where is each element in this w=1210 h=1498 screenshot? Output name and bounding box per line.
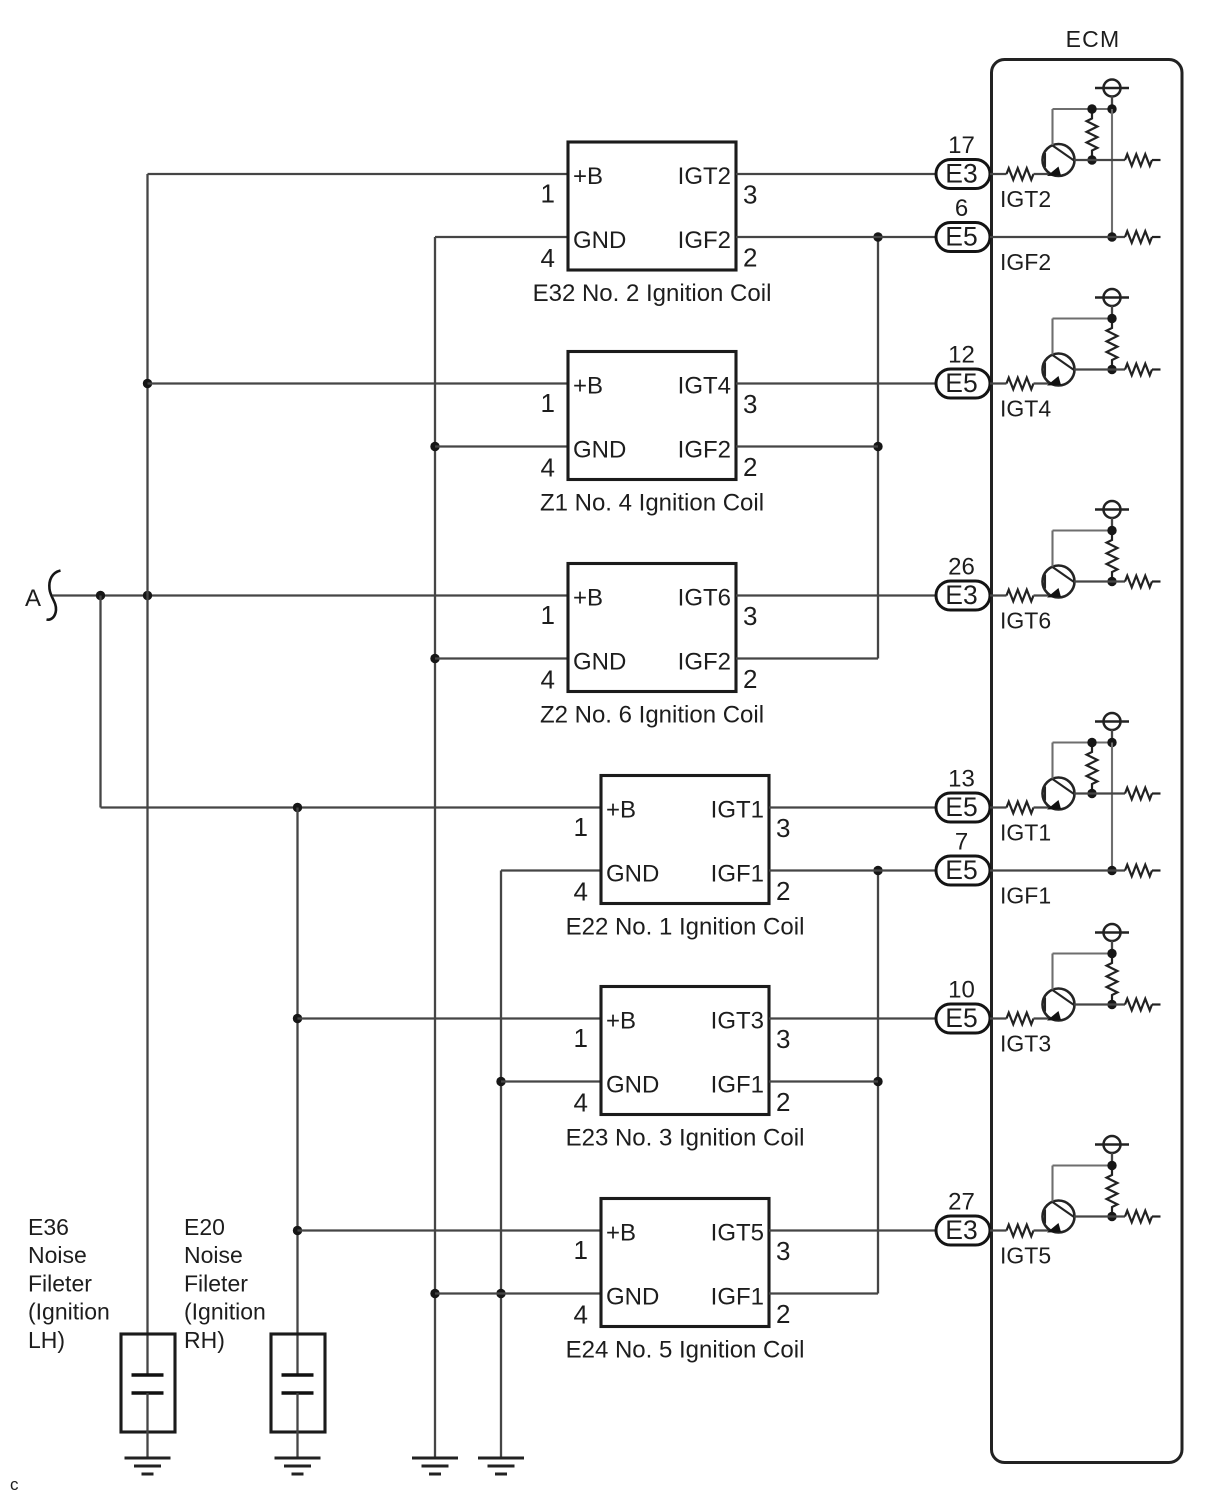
resistor IGT3 collector	[1125, 999, 1152, 1011]
resistor IGF2	[1125, 231, 1152, 243]
transistor IGT6 driver	[1043, 566, 1075, 598]
wire IGT1 collector out	[1074, 792, 1125, 794]
svg-text:E23 No. 3 Ignition Coil: E23 No. 3 Ignition Coil	[566, 1125, 805, 1152]
wire +B riser to E20 noise filter	[296, 808, 298, 1376]
resistor IGT2 collector	[1125, 154, 1152, 166]
junction IGF1 bus / No.3 IGF1	[873, 1077, 882, 1086]
wire IGT6 resistor tail	[1152, 580, 1161, 582]
wire IGF2 No.4 to bus	[736, 445, 878, 447]
junction GND bus / E23 No.3	[496, 1077, 505, 1086]
resistor IGT4 pull-up	[1107, 319, 1118, 370]
junction IGT2 supply branch	[1107, 104, 1116, 113]
svg-text:IGF1: IGF1	[711, 1284, 764, 1311]
resistor IGT5 pull-up	[1107, 1166, 1118, 1217]
resistor IGT4 collector	[1125, 364, 1152, 376]
svg-text:IGT6: IGT6	[1000, 608, 1051, 634]
svg-text:IGT4: IGT4	[1000, 396, 1051, 422]
power symbol IGT3 supply	[1095, 924, 1129, 954]
wire IGF2 No.2 to connector E5-6	[736, 236, 936, 238]
junction IGF1 bus / No.1 IGF1	[873, 866, 882, 875]
svg-text:IGF2: IGF2	[678, 649, 731, 676]
svg-text:IGT4: IGT4	[678, 373, 731, 400]
resistor IGT2 pull-up	[1087, 109, 1098, 160]
ECM box outline	[992, 60, 1183, 1463]
resistor IGT2 base	[1007, 168, 1034, 180]
svg-text:2: 2	[743, 243, 757, 273]
wire +B E23 No.3	[298, 1017, 602, 1019]
svg-text:1: 1	[541, 179, 555, 209]
svg-text:IGF1: IGF1	[1000, 883, 1051, 909]
wire IGF2 into ECM	[990, 236, 1125, 238]
svg-text:E24 No. 5 Ignition Coil: E24 No. 5 Ignition Coil	[566, 1337, 805, 1364]
connector E5 pin 13 (IGT1)	[936, 792, 990, 822]
wire IGT3 collector up	[1051, 954, 1053, 990]
wire IGT5 to connector E3-27	[769, 1229, 936, 1231]
resistor IGT6 pull-up	[1107, 531, 1118, 582]
svg-text:E32 No. 2 Ignition Coil: E32 No. 2 Ignition Coil	[533, 280, 772, 307]
wire IGF1 bus	[877, 871, 879, 1294]
wire IGT4 collector out	[1074, 368, 1125, 370]
junction +B riser / E23 No.3 +B	[293, 1014, 302, 1023]
connector E3 pin 26 (IGT6)	[936, 580, 990, 610]
junction IGT1 resistor top	[1087, 738, 1096, 747]
connector E5 pin 6 (IGF2)	[936, 222, 990, 252]
power symbol IGT2 supply	[1095, 80, 1129, 110]
transistor IGT2 driver	[1043, 144, 1075, 176]
svg-text:E3: E3	[945, 159, 977, 189]
svg-text:IGF2: IGF2	[1000, 249, 1051, 275]
svg-text:13: 13	[948, 766, 975, 793]
svg-text:E5: E5	[945, 855, 977, 885]
ground coil GND bus 2/4/6	[412, 1458, 458, 1474]
ground E36	[125, 1458, 171, 1474]
svg-text:E5: E5	[945, 368, 977, 398]
svg-text:(Ignition: (Ignition	[184, 1299, 266, 1325]
wire IGT1 collector up	[1051, 743, 1053, 779]
svg-text:(Ignition: (Ignition	[28, 1299, 110, 1325]
wire IGT2 resistor tail	[1152, 159, 1161, 161]
wire IGT2 to connector E3-17	[736, 173, 936, 175]
svg-text:7: 7	[955, 829, 968, 856]
resistor IGT3 base	[1007, 1013, 1034, 1025]
svg-text:2: 2	[743, 664, 757, 694]
svg-text:GND: GND	[606, 861, 659, 888]
svg-text:3: 3	[743, 180, 757, 210]
svg-text:E36: E36	[28, 1214, 69, 1240]
svg-text:IGT2: IGT2	[1000, 186, 1051, 212]
power symbol IGT1 supply	[1095, 713, 1129, 743]
svg-text:12: 12	[948, 342, 975, 369]
wire IGT3 top branch	[1053, 952, 1113, 954]
junction IGF2 bus / No.2 IGF2	[873, 232, 882, 241]
wire +B E22 No.1	[101, 806, 602, 808]
resistor IGT1 collector	[1125, 788, 1152, 800]
junction IGT4 supply branch	[1107, 314, 1116, 323]
wire IGT3 collector out	[1074, 1003, 1125, 1005]
svg-text:+B: +B	[573, 373, 603, 400]
resistor IGF1	[1125, 865, 1152, 877]
wire IGT6 collector up	[1051, 531, 1053, 567]
junction +B riser / E24 No.5 +B	[293, 1226, 302, 1235]
wire IGT2 base lead	[990, 173, 1007, 175]
junction GND bus / Z1 No.4	[430, 442, 439, 451]
svg-text:GND: GND	[573, 437, 626, 464]
junction IGF2 bus / No.4 IGF2	[873, 442, 882, 451]
svg-text:RH): RH)	[184, 1327, 225, 1353]
junction IGT3 resistor bottom	[1107, 1000, 1116, 1009]
wire IGF1 resistor tail	[1152, 869, 1161, 871]
wire IGT5 base to transistor	[1034, 1229, 1052, 1231]
wire supply down to IGF1	[1111, 743, 1113, 871]
svg-text:IGT6: IGT6	[678, 585, 731, 612]
svg-text:Fileter: Fileter	[28, 1270, 92, 1296]
svg-text:Z2 No. 6 Ignition Coil: Z2 No. 6 Ignition Coil	[540, 702, 764, 729]
junction IGT2 resistor bottom	[1087, 155, 1096, 164]
svg-text:c: c	[10, 1475, 19, 1494]
svg-text:IGT1: IGT1	[711, 797, 764, 824]
connector E5 pin 12 (IGT4)	[936, 368, 990, 398]
ignition coil Z2 No. 6 Ignition Coil	[568, 564, 736, 692]
transistor IGT4 driver	[1043, 354, 1075, 386]
svg-text:1: 1	[574, 1023, 588, 1053]
junction IGT4 resistor bottom	[1107, 365, 1116, 374]
resistor IGT5 base	[1007, 1225, 1034, 1237]
svg-text:3: 3	[743, 389, 757, 419]
wire IGT2 top branch	[1053, 108, 1113, 110]
svg-text:Fileter: Fileter	[184, 1270, 248, 1296]
resistor IGT1 pull-up	[1087, 743, 1098, 794]
wire IGT5 collector up	[1051, 1166, 1053, 1202]
svg-text:26: 26	[948, 554, 975, 581]
svg-text:17: 17	[948, 132, 975, 159]
power symbol IGT6 supply	[1095, 501, 1129, 531]
ignition coil E24 No. 5 Ignition Coil	[601, 1199, 769, 1327]
svg-text:Noise: Noise	[28, 1242, 87, 1268]
svg-text:1: 1	[541, 388, 555, 418]
wire IGT6 top branch	[1053, 529, 1113, 531]
svg-text:4: 4	[541, 453, 555, 483]
resistor IGT6 collector	[1125, 576, 1152, 588]
wire IGT1 base to transistor	[1034, 806, 1052, 808]
svg-text:3: 3	[776, 1236, 790, 1266]
svg-text:E22 No. 1 Ignition Coil: E22 No. 1 Ignition Coil	[566, 914, 805, 941]
svg-text:+B: +B	[606, 1220, 636, 1247]
wire IGF1 into ECM	[990, 869, 1125, 871]
junction IGF1 line	[1107, 866, 1116, 875]
svg-text:IGF1: IGF1	[711, 861, 764, 888]
svg-text:GND: GND	[606, 1072, 659, 1099]
ground E20	[275, 1458, 321, 1474]
junction A bus / +B riser	[143, 591, 152, 600]
wire +B bus A to coil Z2 No.6	[53, 594, 569, 596]
wire IGF2 No.6 to bus	[736, 657, 878, 659]
transistor IGT3 driver	[1043, 989, 1075, 1021]
power symbol IGT4 supply	[1095, 289, 1129, 319]
wire IGT3 to connector E5-10	[769, 1017, 936, 1019]
wire branch down to No.1 group	[99, 596, 101, 808]
wire IGT6 to connector E3-26	[736, 594, 936, 596]
svg-text:+B: +B	[606, 797, 636, 824]
svg-text:1: 1	[574, 1235, 588, 1265]
ignition coil E23 No. 3 Ignition Coil	[601, 987, 769, 1115]
svg-text:1: 1	[541, 600, 555, 630]
svg-text:3: 3	[743, 601, 757, 631]
junction IGF2 line	[1107, 232, 1116, 241]
wire +B E32 No.2	[148, 173, 569, 175]
svg-text:IGT2: IGT2	[678, 163, 731, 190]
svg-text:IGF1: IGF1	[711, 1072, 764, 1099]
svg-text:E5: E5	[945, 222, 977, 252]
junction +B branch / E20 riser	[293, 803, 302, 812]
wire IGT4 to connector E5-12	[736, 382, 936, 384]
svg-text:E3: E3	[945, 580, 977, 610]
svg-text:4: 4	[541, 243, 555, 273]
wire E36 capacitor to ground	[146, 1393, 148, 1458]
svg-text:2: 2	[776, 1087, 790, 1117]
junction IGT1 resistor bottom	[1087, 789, 1096, 798]
svg-text:1: 1	[574, 812, 588, 842]
svg-text:Z1 No. 4 Ignition Coil: Z1 No. 4 Ignition Coil	[540, 490, 764, 517]
wire E20 capacitor to ground	[296, 1393, 298, 1458]
svg-text:IGF2: IGF2	[678, 437, 731, 464]
ground coil GND bus 1/3/5	[478, 1458, 524, 1474]
svg-text:4: 4	[574, 1300, 588, 1330]
wire IGT3 base to transistor	[1034, 1017, 1052, 1019]
resistor IGT5 collector	[1125, 1211, 1152, 1223]
wire GND E24 No.5	[435, 1292, 601, 1294]
wire IGT4 base lead	[990, 382, 1007, 384]
wire GND Z1 No.4	[435, 445, 568, 447]
wire IGT4 resistor tail	[1152, 368, 1161, 370]
junction IGT2 resistor top	[1087, 104, 1096, 113]
svg-text:ECM: ECM	[1066, 26, 1121, 52]
svg-text:E5: E5	[945, 1003, 977, 1033]
wire IGT2 base to transistor	[1034, 173, 1052, 175]
svg-text:3: 3	[776, 1024, 790, 1054]
ignition coil E22 No. 1 Ignition Coil	[601, 776, 769, 904]
wire IGT5 base lead	[990, 1229, 1007, 1231]
svg-text:2: 2	[776, 876, 790, 906]
svg-text:A: A	[25, 585, 41, 612]
svg-text:IGF2: IGF2	[678, 227, 731, 254]
capacitor E36 noise filter	[121, 1334, 175, 1432]
svg-text:IGT5: IGT5	[1000, 1243, 1051, 1269]
svg-text:6: 6	[955, 195, 968, 222]
junction IGT6 supply branch	[1107, 526, 1116, 535]
ignition coil E32 No. 2 Ignition Coil	[568, 142, 736, 270]
svg-text:GND: GND	[606, 1284, 659, 1311]
wire IGT6 collector out	[1074, 580, 1125, 582]
connector E5 pin 7 (IGF1)	[936, 855, 990, 885]
wire GND bus coils No.1/3/5	[500, 871, 502, 1459]
wire IGT2 collector up	[1051, 109, 1053, 145]
connector E5 pin 10 (IGT3)	[936, 1003, 990, 1033]
svg-text:+B: +B	[573, 585, 603, 612]
wire IGT4 top branch	[1053, 317, 1113, 319]
wire IGF1 No.5 to bus	[769, 1292, 878, 1294]
wire IGF1 No.1 to connector E5-7	[769, 869, 936, 871]
transistor IGT1 driver	[1043, 778, 1075, 810]
svg-text:IGT5: IGT5	[711, 1220, 764, 1247]
svg-text:Noise: Noise	[184, 1242, 243, 1268]
junction IGT6 resistor bottom	[1107, 577, 1116, 586]
junction GND bus / Z2 No.6	[430, 654, 439, 663]
power symbol IGT5 supply	[1095, 1136, 1129, 1166]
svg-text:E5: E5	[945, 792, 977, 822]
junction IGT5 supply branch	[1107, 1161, 1116, 1170]
wire IGT1 resistor tail	[1152, 792, 1161, 794]
junction IGT1 supply branch	[1107, 738, 1116, 747]
wire IGF1 No.3 to bus	[769, 1080, 878, 1082]
svg-text:2: 2	[776, 1299, 790, 1329]
connector E3 pin 17 (IGT2)	[936, 159, 990, 189]
svg-text:GND: GND	[573, 227, 626, 254]
wire IGT5 top branch	[1053, 1164, 1113, 1166]
junction IGT5 resistor bottom	[1107, 1212, 1116, 1221]
svg-text:+B: +B	[573, 163, 603, 190]
wire IGT1 base lead	[990, 806, 1007, 808]
junction GND bus / E24 No.5 GND	[430, 1289, 439, 1298]
capacitor E20 noise filter	[271, 1334, 325, 1432]
svg-text:IGT1: IGT1	[1000, 820, 1051, 846]
wire IGT5 collector out	[1074, 1215, 1125, 1217]
svg-text:10: 10	[948, 977, 975, 1004]
wire GND E22 No.1	[501, 869, 601, 871]
wire IGT3 resistor tail	[1152, 1003, 1161, 1005]
ignition coil Z1 No. 4 Ignition Coil	[568, 352, 736, 480]
wire IGT3 base lead	[990, 1017, 1007, 1019]
junction +B riser / Z1 No.4 +B	[143, 379, 152, 388]
wire IGT4 collector up	[1051, 319, 1053, 355]
resistor IGT4 base	[1007, 378, 1034, 390]
svg-text:4: 4	[574, 1088, 588, 1118]
svg-text:4: 4	[541, 665, 555, 695]
wire IGF2 bus	[877, 237, 879, 659]
svg-text:LH): LH)	[28, 1327, 65, 1353]
svg-text:4: 4	[574, 877, 588, 907]
resistor IGT1 base	[1007, 802, 1034, 814]
wire +B Z1 No.4	[148, 382, 569, 384]
wire IGF2 resistor tail	[1152, 236, 1161, 238]
wire supply down to IGF2	[1111, 109, 1113, 237]
junction A bus / branch to No.1 coil group	[96, 591, 105, 600]
svg-text:+B: +B	[606, 1008, 636, 1035]
wire IGT1 top branch	[1053, 741, 1113, 743]
svg-text:3: 3	[776, 813, 790, 843]
svg-text:E20: E20	[184, 1214, 225, 1240]
transistor IGT5 driver	[1043, 1201, 1075, 1233]
wire IGT2 collector out	[1074, 159, 1125, 161]
wire IGT1 to connector E5-13	[769, 806, 936, 808]
wire +B E24 No.5	[298, 1229, 602, 1231]
svg-text:GND: GND	[573, 649, 626, 676]
wire IGT4 base to transistor	[1034, 382, 1052, 384]
svg-text:2: 2	[743, 452, 757, 482]
wire +B riser to E36 noise filter	[146, 174, 148, 1375]
wire GND bus coils No.2/4/6	[434, 237, 436, 1458]
connector E3 pin 27 (IGT5)	[936, 1215, 990, 1245]
node A break symbol	[47, 571, 61, 620]
svg-text:E3: E3	[945, 1215, 977, 1245]
wire IGT5 resistor tail	[1152, 1215, 1161, 1217]
wire IGT6 base lead	[990, 594, 1007, 596]
resistor IGT6 base	[1007, 590, 1034, 602]
wire GND Z2 No.6	[435, 657, 568, 659]
wire IGT6 base to transistor	[1034, 594, 1052, 596]
junction IGT3 supply branch	[1107, 949, 1116, 958]
svg-text:27: 27	[948, 1189, 975, 1216]
junction GND bus crossing / E24 No.5	[496, 1289, 505, 1298]
wire GND E32 No.2	[435, 236, 568, 238]
resistor IGT3 pull-up	[1107, 954, 1118, 1005]
wire GND E23 No.3	[501, 1080, 601, 1082]
svg-text:IGT3: IGT3	[711, 1008, 764, 1035]
svg-text:IGT3: IGT3	[1000, 1031, 1051, 1057]
